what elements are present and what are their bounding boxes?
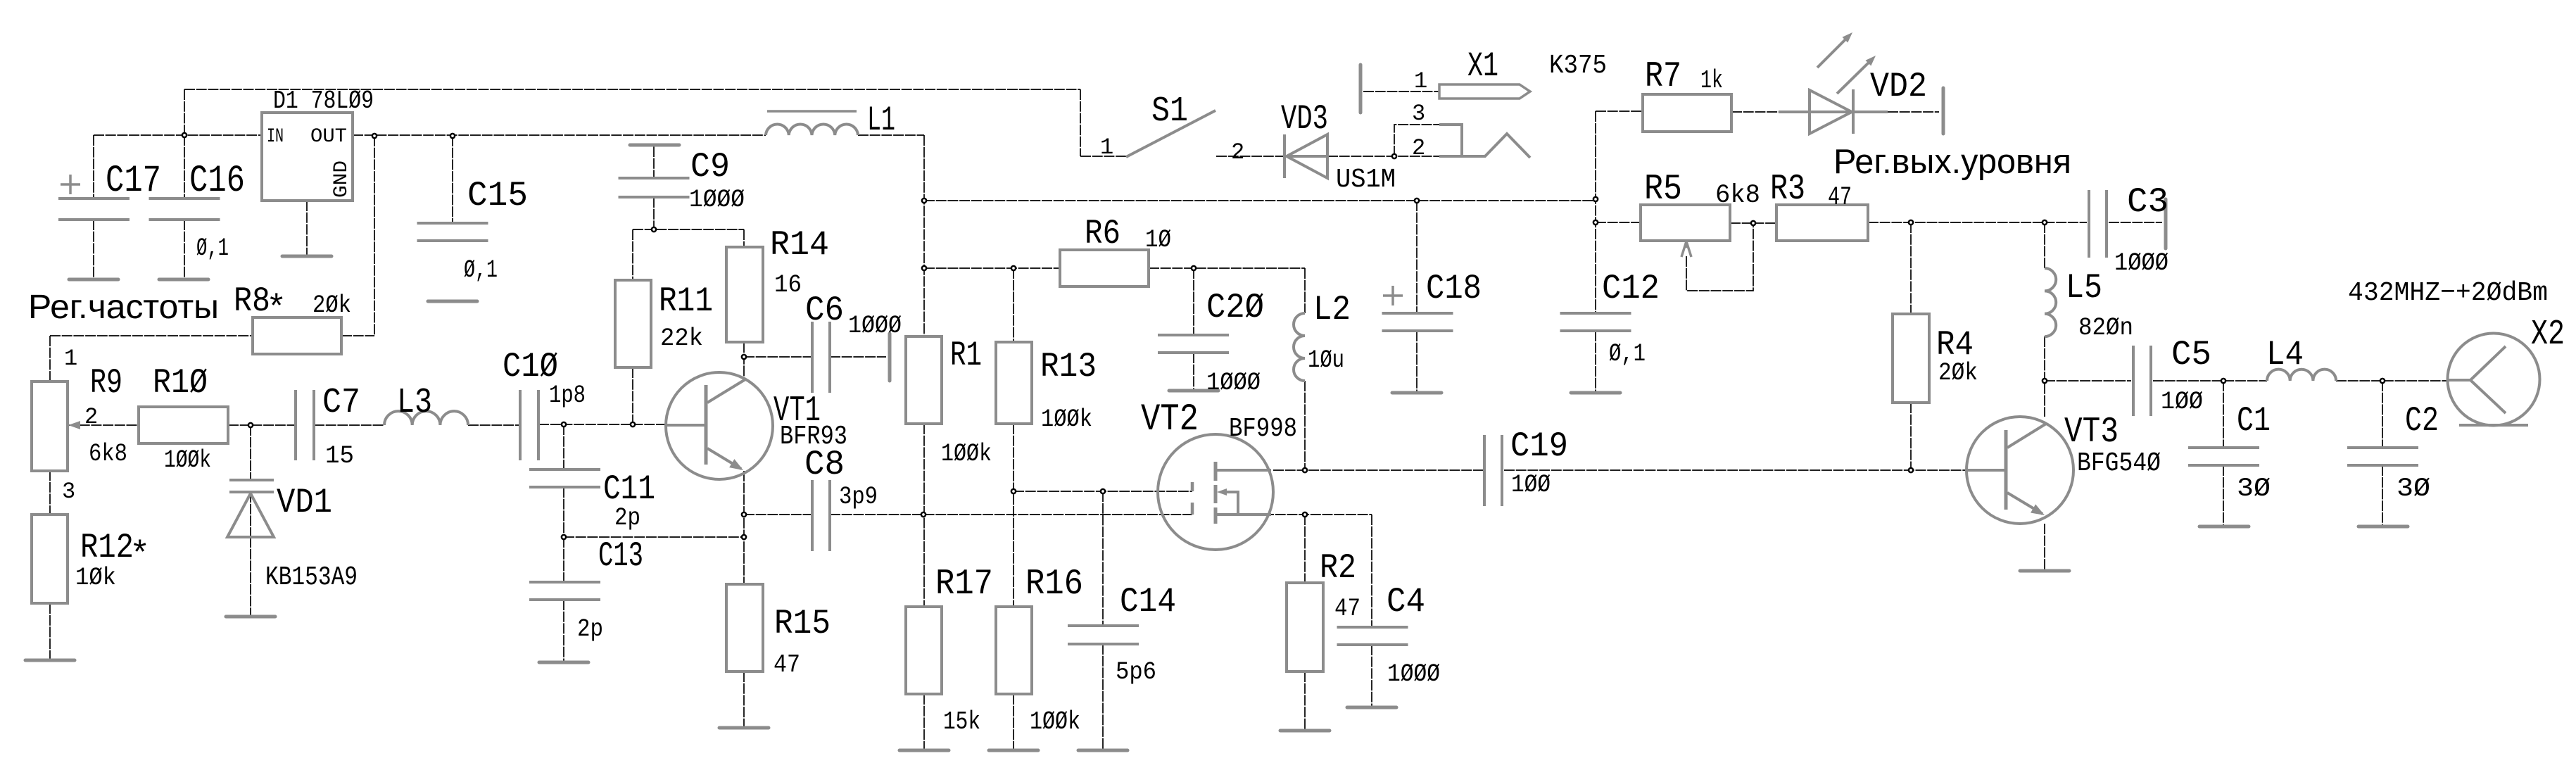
node R3/R4 bbox=[1909, 220, 1913, 225]
svg-text:1Øu: 1Øu bbox=[1308, 346, 1344, 374]
svg-text:R1: R1 bbox=[950, 336, 982, 375]
svg-text:VT2: VT2 bbox=[1141, 398, 1199, 441]
inductor L5 coil bbox=[2045, 268, 2056, 336]
transistor VT1 base stub bbox=[667, 424, 705, 427]
capacitor C13 plates bbox=[529, 582, 600, 600]
node R14/C6/VT1 bbox=[742, 355, 746, 359]
inductor L4 coil bbox=[2267, 370, 2336, 381]
wire VD3 to jack bbox=[1327, 156, 1439, 157]
transistor VT1 emitter bbox=[707, 448, 741, 469]
wire L2 top bbox=[1304, 268, 1306, 313]
svg-text:C7: C7 bbox=[322, 383, 360, 423]
wire R2 to ground bbox=[1304, 671, 1306, 731]
svg-text:5p6: 5p6 bbox=[1116, 658, 1156, 686]
svg-text:R17: R17 bbox=[935, 565, 993, 605]
wire R13 to VT2 gate1 bbox=[1014, 491, 1192, 492]
wire VT2 source to C4 bbox=[1263, 515, 1372, 627]
resistor R7 bbox=[1643, 94, 1731, 132]
wire C10 to VT1 base bbox=[538, 424, 667, 425]
node R13 top bbox=[1011, 266, 1016, 270]
wire S1 to VD3 bbox=[1216, 156, 1284, 157]
svg-text:L4: L4 bbox=[2266, 335, 2304, 374]
transistor VT2 circle bbox=[1158, 434, 1273, 550]
wire C3 to L5 bbox=[2044, 222, 2045, 268]
capacitor C17 plates bbox=[58, 198, 130, 220]
svg-text:C13: C13 bbox=[598, 536, 643, 576]
node R5 tap bbox=[1593, 220, 1598, 225]
wire to R7 bbox=[1596, 111, 1643, 112]
svg-text:15: 15 bbox=[325, 442, 354, 470]
diode VD3 cathode bar bbox=[1283, 134, 1286, 178]
svg-text:1ØØØ: 1ØØØ bbox=[2114, 249, 2168, 277]
resistor R14 bbox=[726, 247, 763, 342]
wire R7/C12 vertical bbox=[1595, 111, 1596, 313]
wire D1 GND pin bbox=[306, 201, 308, 256]
transistor VT2 gate bars bbox=[1191, 482, 1194, 515]
node L1/rail381 bbox=[922, 266, 926, 270]
wire C11 top bbox=[563, 424, 564, 469]
node VD3/jack bbox=[1392, 154, 1396, 158]
capacitor C5 plates bbox=[2133, 346, 2151, 416]
svg-text:22k: 22k bbox=[660, 324, 703, 353]
svg-text:2p: 2p bbox=[577, 615, 603, 643]
transistor VT1 circle bbox=[666, 372, 773, 479]
node C8/R1 bbox=[921, 512, 926, 517]
capacitor C10 plates bbox=[520, 390, 538, 460]
ground C15 bbox=[428, 300, 477, 303]
svg-text:6k8: 6k8 bbox=[1715, 181, 1760, 210]
svg-text:6k8: 6k8 bbox=[89, 440, 127, 468]
wire R7 to VD2 bbox=[1731, 111, 1779, 113]
svg-text:R13: R13 bbox=[1040, 347, 1097, 386]
wire L2 to drain bbox=[1304, 381, 1306, 470]
svg-text:C6: C6 bbox=[805, 291, 844, 330]
ground D1 bbox=[282, 255, 332, 258]
node C2 tap bbox=[2380, 379, 2385, 383]
svg-text:3Ø: 3Ø bbox=[2397, 474, 2430, 504]
terminal after C6 bbox=[888, 334, 892, 381]
svg-text:VD1: VD1 bbox=[277, 483, 332, 522]
svg-text:2: 2 bbox=[1231, 139, 1244, 165]
wire R1 to R17 bbox=[923, 424, 925, 607]
wire 9V rail upper bbox=[924, 200, 1596, 201]
svg-text:R11: R11 bbox=[659, 282, 713, 321]
capacitor C2 plates bbox=[2347, 448, 2418, 465]
svg-text:Ø,1: Ø,1 bbox=[464, 256, 498, 284]
wire emitter to C8 bbox=[744, 514, 812, 515]
wire C9 top bbox=[653, 146, 655, 178]
resistor R13 bbox=[996, 342, 1032, 424]
wire C2 to ground bbox=[2382, 465, 2383, 526]
ground C2 bbox=[2359, 525, 2408, 529]
svg-text:R2: R2 bbox=[1320, 548, 1356, 588]
capacitor C8 plates bbox=[812, 480, 830, 551]
capacitor C16 plates bbox=[149, 198, 220, 220]
resistor R12* bbox=[32, 515, 68, 603]
transistor VT2 source lead bbox=[1216, 513, 1271, 516]
wire C6 left bbox=[744, 356, 812, 358]
svg-text:15k: 15k bbox=[943, 707, 980, 736]
svg-text:2: 2 bbox=[84, 404, 98, 430]
node R8 drop bbox=[372, 134, 377, 138]
svg-text:L1: L1 bbox=[867, 101, 895, 140]
wire C6 right bbox=[830, 356, 886, 358]
svg-text:1p8: 1p8 bbox=[549, 381, 586, 410]
node R10/VD1 bbox=[248, 423, 253, 427]
inductor L1 coil bbox=[766, 125, 858, 135]
svg-text:Ø,1: Ø,1 bbox=[1609, 340, 1646, 368]
wire C5 to L4 bbox=[2153, 380, 2267, 381]
svg-text:L3: L3 bbox=[397, 383, 432, 423]
diode VD3 triangle bbox=[1287, 134, 1327, 178]
terminal after VD2 bbox=[1942, 88, 1945, 134]
wire R4 top bbox=[1910, 222, 1912, 314]
svg-text:1ØØk: 1ØØk bbox=[941, 440, 992, 468]
svg-text:D1 78LØ9: D1 78LØ9 bbox=[273, 87, 374, 115]
svg-text:C1: C1 bbox=[2237, 401, 2271, 441]
capacitor C19 plates bbox=[1484, 435, 1502, 506]
terminal C9 top bar bbox=[630, 144, 679, 147]
svg-text:2Øk: 2Øk bbox=[312, 291, 351, 320]
wire R6 to L2 bbox=[1149, 267, 1305, 269]
svg-text:1ØØk: 1ØØk bbox=[1030, 707, 1080, 736]
wire C2 top bbox=[2382, 381, 2383, 448]
wire C11 bottom bbox=[563, 487, 564, 537]
switch S1 blade bbox=[1126, 111, 1216, 157]
wire R11 bottom bbox=[632, 367, 633, 424]
ground VT3 bbox=[2020, 569, 2069, 573]
wire L1 drop to R1 bbox=[923, 135, 925, 336]
diode VD2 cathode stub bbox=[1854, 111, 1888, 113]
svg-text:16: 16 bbox=[774, 271, 802, 299]
wire VT1 emitter down bbox=[743, 471, 745, 584]
wire IN rail bbox=[94, 134, 262, 136]
svg-text:L2: L2 bbox=[1313, 290, 1351, 329]
wire VD1 top bbox=[250, 425, 251, 480]
wire C11/C13 to emitter bbox=[564, 536, 744, 538]
node VT3 coll/C5 bbox=[2043, 379, 2047, 383]
wire L3 to C10 bbox=[468, 424, 520, 426]
diode VD2 LED arrow 2 bbox=[1837, 61, 1871, 94]
wire R13 top bbox=[1013, 268, 1014, 342]
diode VD2 LED arrowhead 2 bbox=[1866, 56, 1876, 66]
capacitor C20 plates bbox=[1158, 335, 1229, 353]
svg-text:R1Ø: R1Ø bbox=[153, 363, 208, 403]
svg-text:1Ø: 1Ø bbox=[1145, 226, 1171, 254]
wire C19 to VT3 base bbox=[1504, 469, 1966, 471]
node R4/VT3 base bbox=[1909, 468, 1913, 472]
resistor R5 (potentiometer body) bbox=[1641, 205, 1730, 241]
svg-text:US1M: US1M bbox=[1336, 165, 1396, 195]
jack pin3 contact bbox=[1439, 125, 1462, 156]
svg-text:1: 1 bbox=[64, 346, 77, 372]
wire R8 right drop bbox=[341, 136, 374, 336]
R5 wiper arrow bbox=[1681, 241, 1691, 257]
svg-text:X2: X2 bbox=[2531, 315, 2565, 355]
svg-text:1ØØ: 1ØØ bbox=[1511, 471, 1551, 499]
svg-text:Ø,1: Ø,1 bbox=[196, 234, 229, 263]
diode VD1 varicap plates bbox=[229, 480, 274, 492]
diode VD2 anode stub bbox=[1779, 111, 1810, 113]
svg-text:L5: L5 bbox=[2066, 268, 2102, 308]
resistor R15 bbox=[726, 584, 763, 671]
svg-text:82Øn: 82Øn bbox=[2078, 314, 2133, 342]
resistor R9 (potentiometer body) bbox=[32, 381, 68, 471]
transistor VT3 emitter arrow bbox=[2031, 504, 2045, 515]
wire R13 to R16 bbox=[1013, 424, 1014, 607]
capacitor C7 plates bbox=[296, 390, 314, 460]
wire VD2 to terminal bbox=[1888, 111, 1939, 113]
resistor R1 bbox=[906, 336, 942, 424]
wire C15 drop bbox=[452, 136, 453, 223]
svg-text:C4: C4 bbox=[1387, 582, 1425, 622]
svg-text:R9: R9 bbox=[90, 363, 122, 403]
diode VD2 LED triangle bbox=[1810, 90, 1852, 134]
wire C9 bottom bbox=[653, 197, 655, 229]
capacitor C12 plates bbox=[1560, 313, 1631, 331]
wire VD1 to ground bbox=[250, 537, 251, 617]
wire R17 to ground bbox=[923, 694, 925, 750]
svg-text:Рег.частоты: Рег.частоты bbox=[28, 289, 219, 326]
wire VT3 emitter to ground bbox=[2044, 524, 2045, 571]
wire C1 top bbox=[2223, 381, 2224, 448]
wire to S1 pin 1 bbox=[1080, 156, 1126, 157]
svg-text:47: 47 bbox=[1828, 183, 1852, 213]
svg-text:1ØØk: 1ØØk bbox=[164, 446, 211, 474]
svg-text:1ØØk: 1ØØk bbox=[1041, 405, 1092, 434]
wire R2 top bbox=[1304, 515, 1306, 583]
node C15 tap bbox=[450, 134, 455, 138]
wire R9 to R12 bbox=[49, 470, 51, 515]
node C3/L5 bbox=[2043, 220, 2047, 225]
transistor VT2 drain lead bbox=[1216, 469, 1271, 472]
wire C14 top bbox=[1102, 491, 1104, 626]
wire R3 to C3 bbox=[1868, 222, 2087, 223]
capacitor C9 plates bbox=[619, 178, 690, 197]
svg-text:R8: R8 bbox=[234, 282, 270, 321]
capacitor C14 plates bbox=[1068, 626, 1139, 644]
node drain/L2 bbox=[1303, 468, 1307, 472]
R9 wiper arrow bbox=[68, 421, 80, 429]
wire R12 to ground bbox=[49, 603, 51, 660]
wire VT2 drain to C19 bbox=[1273, 469, 1484, 471]
svg-text:C3: C3 bbox=[2127, 182, 2168, 222]
ground C4 bbox=[1347, 706, 1396, 710]
svg-text:1k: 1k bbox=[1700, 66, 1723, 95]
svg-text:C17: C17 bbox=[106, 160, 161, 203]
transistor VT1 base bar bbox=[705, 385, 708, 465]
wire R10 to C7 bbox=[228, 424, 296, 426]
wire C12 to ground bbox=[1595, 331, 1596, 393]
svg-text:C14: C14 bbox=[1120, 582, 1176, 622]
wire C18 top bbox=[1416, 201, 1418, 313]
wire C20 top bbox=[1193, 268, 1194, 335]
transistor VT3 base bar bbox=[2004, 430, 2008, 510]
node gate1/C14 bbox=[1101, 489, 1105, 493]
node C1 tap bbox=[2221, 379, 2225, 383]
svg-text:1Øk: 1Øk bbox=[75, 564, 116, 592]
transistor VT3 circle bbox=[1966, 417, 2073, 524]
wire L4 to X2 bbox=[2336, 380, 2447, 381]
node emitter/C8 bbox=[742, 512, 746, 517]
wire R8 to R9 bbox=[50, 336, 253, 381]
ground R17 bbox=[899, 749, 949, 752]
svg-text:KB153A9: KB153A9 bbox=[265, 562, 358, 593]
svg-text:Рег.вых.уровня: Рег.вых.уровня bbox=[1833, 143, 2071, 181]
svg-text:BFG54Ø: BFG54Ø bbox=[2077, 448, 2161, 479]
svg-text:R7: R7 bbox=[1645, 57, 1681, 97]
node C20 tap bbox=[1192, 266, 1196, 270]
svg-text:1: 1 bbox=[1414, 68, 1427, 94]
svg-text:3p9: 3p9 bbox=[839, 483, 878, 511]
resistor R16 bbox=[996, 607, 1032, 694]
connector X2 pin fork bbox=[2448, 346, 2506, 413]
ground VD1 bbox=[226, 615, 275, 619]
svg-text:R5: R5 bbox=[1644, 170, 1682, 210]
wire C17 bottom bbox=[93, 220, 94, 279]
svg-text:3: 3 bbox=[62, 479, 75, 505]
node L1/rail285 bbox=[922, 198, 926, 203]
svg-text:S1: S1 bbox=[1151, 92, 1188, 132]
resistor R8* bbox=[253, 317, 341, 354]
wire C14 to ground bbox=[1102, 644, 1104, 750]
svg-text:GND: GND bbox=[331, 160, 353, 198]
terminal after C3 bbox=[2164, 199, 2168, 248]
transistor VT1 collector bbox=[707, 379, 745, 403]
svg-text:VD3: VD3 bbox=[1281, 99, 1328, 139]
node C9/R11/R14 bbox=[652, 227, 656, 232]
svg-text:R12: R12 bbox=[80, 528, 134, 567]
capacitor C15 plates bbox=[417, 223, 488, 241]
wire VT3 collector to C5 bbox=[2045, 380, 2131, 381]
wire OUT rail to L1 bbox=[353, 134, 766, 136]
connector X2 shield line bbox=[2459, 424, 2528, 427]
ground C1 bbox=[2199, 525, 2249, 529]
node gate1/R13 bbox=[1011, 489, 1016, 493]
ground R15 bbox=[719, 726, 769, 730]
wire VD1 middle bbox=[250, 492, 251, 537]
resistor R10 bbox=[139, 407, 228, 443]
svg-text:OUT: OUT bbox=[310, 126, 347, 148]
connector X1 plug body bbox=[1439, 84, 1530, 99]
wire C7 to L3 bbox=[314, 424, 384, 426]
svg-text:X1: X1 bbox=[1467, 46, 1498, 86]
capacitor C18 polarity + bbox=[1383, 286, 1403, 305]
svg-text:C11: C11 bbox=[603, 469, 655, 509]
jack pin2 contact bbox=[1439, 134, 1530, 158]
wire C9 to R11/R14 bbox=[633, 229, 744, 280]
svg-text:1: 1 bbox=[1100, 134, 1113, 160]
node C10/C11 bbox=[562, 422, 566, 427]
wire C17 top bbox=[93, 135, 94, 198]
wire C13 bottom bbox=[563, 600, 564, 662]
ground C17 bbox=[69, 278, 118, 282]
capacitor C3 plates bbox=[2089, 190, 2107, 258]
transistor VT3 emitter bbox=[2007, 493, 2043, 514]
wire C13 top bbox=[563, 537, 564, 582]
node C18 tap bbox=[1415, 198, 1419, 203]
svg-text:VD2: VD2 bbox=[1870, 67, 1927, 106]
wire L1 to corner bbox=[858, 134, 924, 136]
ground R12 bbox=[25, 659, 75, 662]
node R11/base bbox=[631, 422, 635, 427]
diode VD2 LED arrow 1 bbox=[1817, 37, 1848, 68]
resistor R11 bbox=[615, 280, 651, 367]
svg-text:47: 47 bbox=[774, 650, 800, 679]
wire C20 to ground bbox=[1193, 353, 1194, 391]
diode VD1 triangle bbox=[227, 493, 274, 537]
svg-text:C12: C12 bbox=[1602, 269, 1660, 308]
wire C18 to ground bbox=[1416, 331, 1418, 393]
svg-text:432MHZ−+2ØdBm: 432MHZ−+2ØdBm bbox=[2348, 278, 2548, 308]
wire S1 drop bbox=[1080, 89, 1081, 156]
inductor L3 coil bbox=[384, 411, 468, 425]
wire R4 bottom bbox=[1910, 403, 1912, 470]
capacitor C18 plates bbox=[1382, 313, 1453, 331]
terminal X1 pin1 bar bbox=[1359, 65, 1363, 113]
node C13/emitter wire bbox=[562, 535, 566, 539]
wire C4 to ground bbox=[1371, 645, 1372, 707]
node rail/C16 bbox=[182, 133, 187, 137]
wire R14 to VT1 collector bbox=[743, 342, 745, 379]
inductor L1 core bar bbox=[767, 110, 857, 113]
wire R5 to R3 bbox=[1730, 222, 1776, 224]
svg-text:1ØØØ: 1ØØØ bbox=[689, 186, 745, 214]
ground C16 bbox=[159, 278, 208, 282]
wire R16 to ground bbox=[1013, 694, 1014, 750]
svg-text:2p: 2p bbox=[614, 504, 640, 532]
ground C12 bbox=[1571, 391, 1620, 395]
transistor VT2 substrate lead bbox=[1222, 492, 1238, 515]
svg-text:1ØØØ: 1ØØØ bbox=[1387, 660, 1440, 688]
wire X1 pin 1 bbox=[1363, 91, 1439, 92]
svg-text:C2Ø: C2Ø bbox=[1206, 288, 1264, 327]
node emitter/C11 bbox=[742, 535, 746, 539]
svg-text:*: * bbox=[266, 289, 286, 329]
svg-text:R16: R16 bbox=[1025, 565, 1083, 605]
wire R5 wiper return bbox=[1686, 223, 1753, 291]
svg-text:C16: C16 bbox=[189, 160, 245, 203]
wire jack pin3 branch bbox=[1394, 125, 1439, 156]
capacitor C17 polarity + bbox=[61, 175, 80, 194]
svg-text:C9: C9 bbox=[690, 147, 730, 187]
wire C16 bottom bbox=[184, 220, 185, 279]
wire C16 top bbox=[184, 135, 185, 198]
svg-text:C2: C2 bbox=[2405, 401, 2439, 441]
wire +supply top rail bbox=[184, 89, 1080, 90]
capacitor C4 plates bbox=[1337, 627, 1408, 645]
node source/R2 bbox=[1303, 512, 1307, 517]
connector X2 circle bbox=[2448, 334, 2540, 426]
ground C20 bbox=[1169, 389, 1218, 393]
svg-text:C5: C5 bbox=[2171, 335, 2211, 374]
svg-text:3: 3 bbox=[1412, 101, 1425, 127]
svg-text:47: 47 bbox=[1334, 595, 1360, 623]
svg-text:3Ø: 3Ø bbox=[2237, 474, 2271, 504]
wire R15 to ground bbox=[743, 671, 745, 728]
wire L5 to VT3 collector bbox=[2044, 336, 2045, 417]
svg-text:BF998: BF998 bbox=[1229, 414, 1297, 444]
svg-text:C15: C15 bbox=[467, 176, 528, 215]
svg-text:C1Ø: C1Ø bbox=[503, 347, 558, 386]
resistor R4 bbox=[1893, 314, 1929, 403]
wire R9 wiper to R10 bbox=[68, 424, 139, 426]
diode VD2 cathode bar bbox=[1852, 89, 1855, 134]
wire C8 to VT2 gate2 bbox=[830, 514, 1192, 515]
wire 9V rail lower to R6 bbox=[924, 267, 1060, 269]
resistor R17 bbox=[906, 607, 942, 694]
svg-text:C18: C18 bbox=[1426, 269, 1482, 308]
